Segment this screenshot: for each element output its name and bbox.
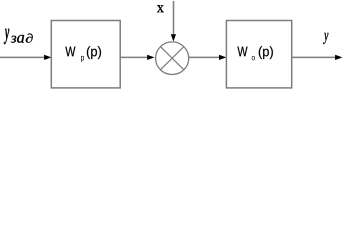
label W of Wp(p) <box>65 47 75 57</box>
regulator block Wp(p) <box>51 21 120 88</box>
wire: summer to object block <box>189 56 220 58</box>
summer diagonal 1 <box>161 47 184 70</box>
label subscript p of Wp(p) <box>81 56 84 62</box>
object block Wo(p) <box>226 21 291 88</box>
wire: output line <box>292 56 336 58</box>
arrowhead output <box>335 55 342 60</box>
node label узад: а <box>17 35 24 43</box>
label (p) of Wo(p) <box>259 46 273 59</box>
summer circle <box>156 42 189 75</box>
node label узад: д <box>26 33 33 42</box>
arrowhead into summer <box>147 55 154 60</box>
wire: input setpoint line <box>0 56 45 58</box>
summer diagonal 2 <box>161 47 184 70</box>
label (p) of Wp(p) <box>87 46 101 59</box>
wire: disturbance drop line <box>173 1 175 35</box>
wire: regulator to summer <box>120 56 148 58</box>
node label узад: у <box>4 29 9 44</box>
node y label <box>323 33 328 44</box>
arrowhead into object block <box>219 55 226 60</box>
label subscript o of Wo(p) <box>252 56 255 60</box>
arrowhead into summer top <box>171 34 176 41</box>
label W of Wo(p) <box>237 47 247 57</box>
arrowhead into regulator block <box>44 55 51 60</box>
node label узад: з <box>11 36 16 43</box>
node x label <box>157 5 164 12</box>
